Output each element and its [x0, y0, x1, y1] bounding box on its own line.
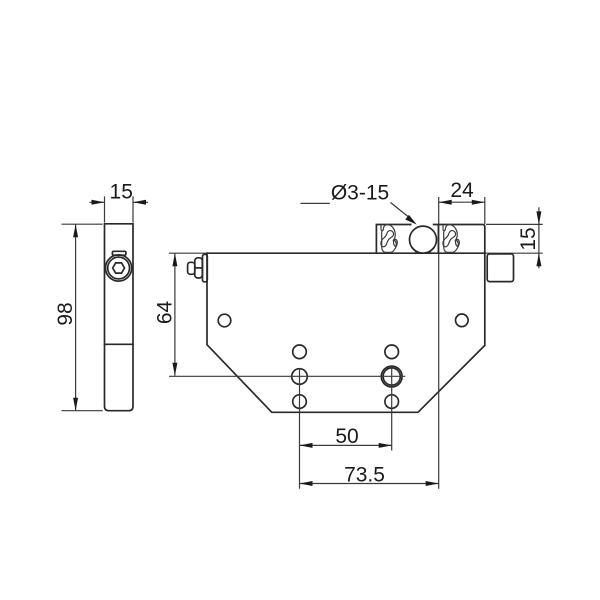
svg-text:98: 98	[54, 302, 77, 325]
svg-text:15: 15	[110, 181, 133, 204]
svg-text:Ø3-15: Ø3-15	[331, 181, 389, 204]
svg-text:73.5: 73.5	[344, 463, 385, 486]
svg-text:50: 50	[335, 425, 358, 448]
svg-text:15: 15	[517, 227, 540, 250]
svg-text:64: 64	[154, 301, 177, 325]
svg-text:24: 24	[450, 179, 474, 202]
